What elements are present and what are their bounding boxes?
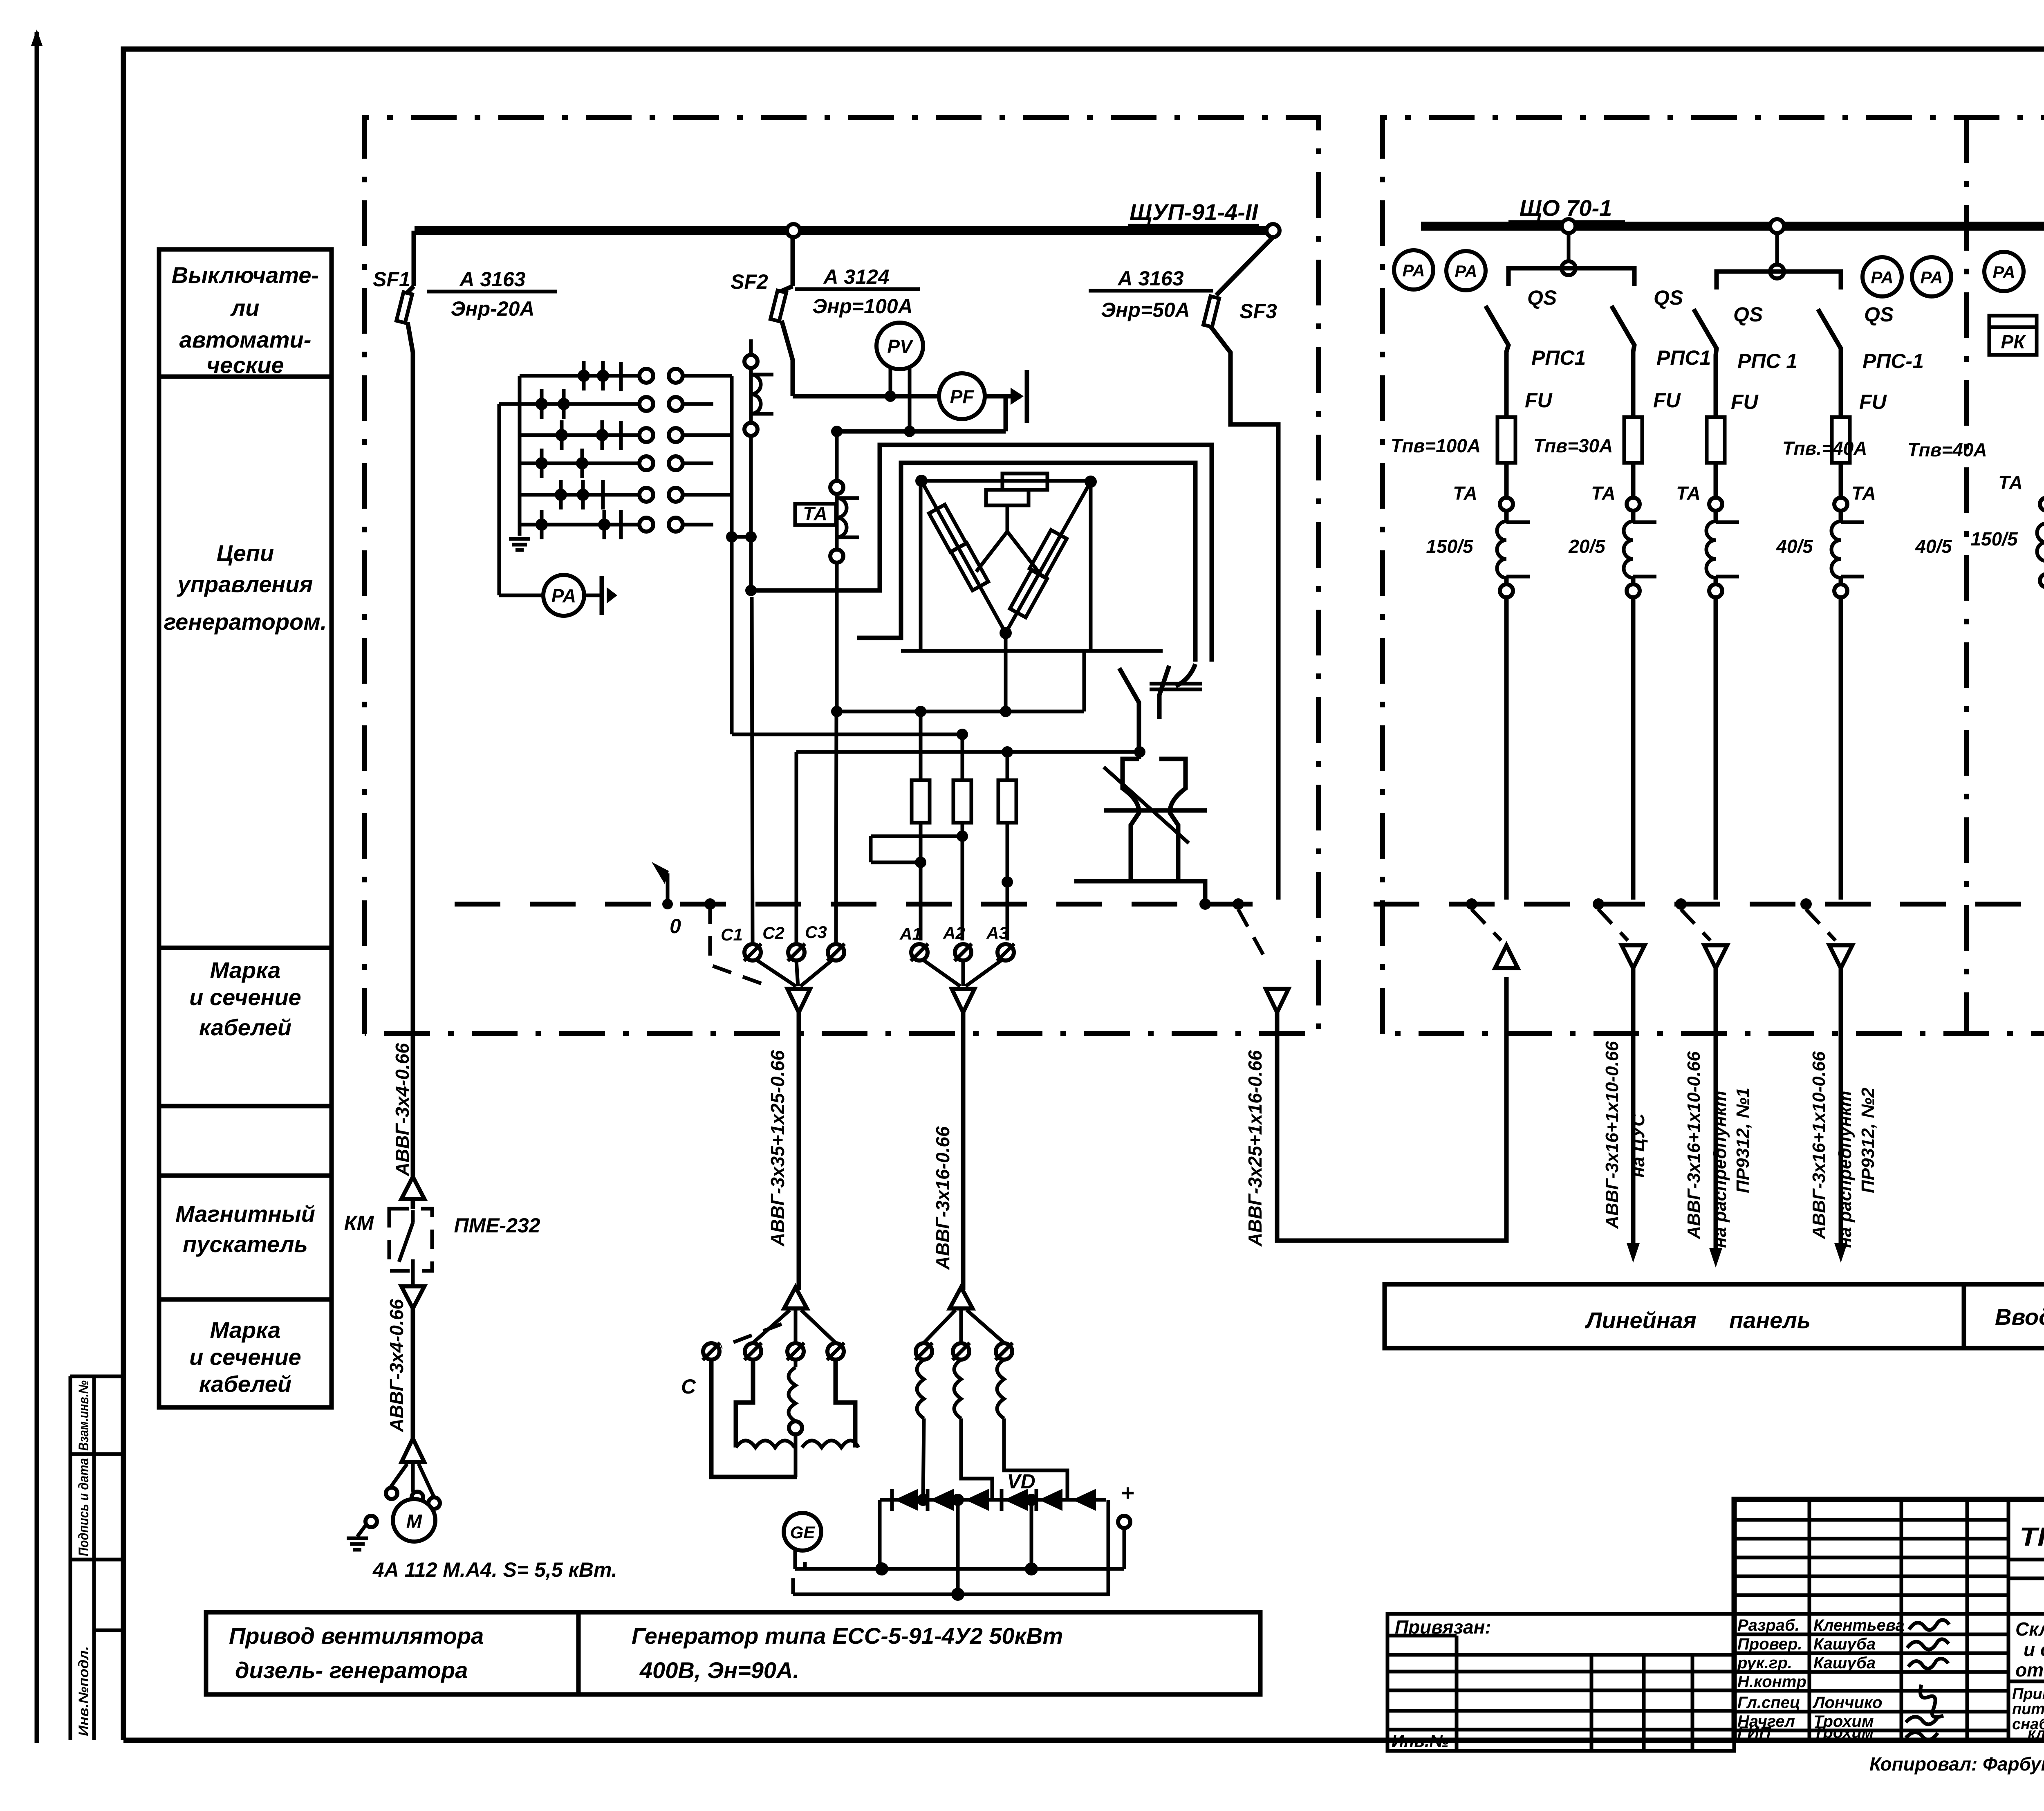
svg-text:PA: PA <box>1402 261 1425 280</box>
svg-text:АВВГ-3х4-0.66: АВВГ-3х4-0.66 <box>392 1043 413 1176</box>
svg-text:Клентьева: Клентьева <box>1813 1616 1905 1634</box>
svg-text:QS: QS <box>1654 286 1683 309</box>
svg-text:FU: FU <box>1653 389 1681 412</box>
svg-text:Подпись и дата: Подпись и дата <box>76 1458 92 1556</box>
svg-text:ТА: ТА <box>1676 482 1701 504</box>
svg-text:Гл.спец: Гл.спец <box>1737 1694 1800 1712</box>
svg-text:на распредпункт: на распредпункт <box>1835 1091 1855 1248</box>
svg-text:Тпв=100А: Тпв=100А <box>1391 435 1481 456</box>
svg-text:QS: QS <box>1864 303 1894 326</box>
svg-text:АВВГ-3х4-0.66: АВВГ-3х4-0.66 <box>386 1299 407 1432</box>
svg-text:генератором.: генератором. <box>164 609 327 635</box>
svg-text:Н.контр: Н.контр <box>1737 1673 1806 1691</box>
svg-text:Кашуба: Кашуба <box>1813 1635 1876 1653</box>
svg-text:SF2: SF2 <box>731 270 768 293</box>
svg-text:ческие: ческие <box>206 352 284 378</box>
svg-text:АВВГ-3х16-0.66: АВВГ-3х16-0.66 <box>932 1126 953 1270</box>
svg-text:ПР9312, №1: ПР9312, №1 <box>1733 1088 1753 1193</box>
svg-text:Взам.инв.№: Взам.инв.№ <box>76 1380 92 1451</box>
svg-text:Разраб.: Разраб. <box>1737 1616 1800 1634</box>
svg-text:PA: PA <box>1920 268 1943 287</box>
svg-text:PA: PA <box>551 585 576 606</box>
svg-text:С2: С2 <box>762 923 784 943</box>
svg-text:А 3124: А 3124 <box>823 265 889 288</box>
svg-text:и оборудования: и оборудования <box>2024 1639 2044 1660</box>
svg-text:Магнитный: Магнитный <box>175 1201 315 1227</box>
svg-text:АВВГ-3х25+1х16-0.66: АВВГ-3х25+1х16-0.66 <box>1244 1050 1266 1247</box>
svg-text:Копировал: Фарбун: Копировал: Фарбун <box>1869 1753 2044 1775</box>
svg-text:Вводная: Вводная <box>1995 1304 2044 1330</box>
svg-text:АВВГ-3х16+1х10-0.66: АВВГ-3х16+1х10-0.66 <box>1809 1051 1829 1239</box>
svg-text:А 3163: А 3163 <box>1117 267 1183 290</box>
svg-text:панель: панель <box>1729 1307 1811 1333</box>
svg-text:АВВГ-3х16+1х10-0.66: АВВГ-3х16+1х10-0.66 <box>1602 1041 1622 1229</box>
svg-text:Энр=100А: Энр=100А <box>812 295 912 318</box>
svg-text:АВВГ-3х35+1х25-0.66: АВВГ-3х35+1х25-0.66 <box>767 1050 788 1247</box>
svg-text:управления: управления <box>177 571 313 597</box>
svg-text:РПС-1: РПС-1 <box>1862 350 1924 373</box>
svg-text:А2: А2 <box>943 923 965 943</box>
svg-text:Тпв=30А: Тпв=30А <box>1533 435 1613 456</box>
svg-text:Энр=50А: Энр=50А <box>1101 298 1190 321</box>
svg-text:Тпв.=40А: Тпв.=40А <box>1782 438 1867 459</box>
svg-text:на распредпункт: на распредпункт <box>1710 1091 1730 1248</box>
svg-text:отдельно стоящий: отдельно стоящий <box>2015 1659 2044 1681</box>
svg-text:питательной сети электро: питательной сети электро <box>2012 1701 2044 1718</box>
svg-text:Линейная: Линейная <box>1585 1307 1697 1333</box>
svg-text:АВВГ-3х16+1х10-0.66: АВВГ-3х16+1х10-0.66 <box>1684 1051 1704 1239</box>
svg-text:Трохим: Трохим <box>1813 1723 1874 1741</box>
svg-text:А1: А1 <box>899 924 922 943</box>
svg-text:ТПА-II-600-338.86: ТПА-II-600-338.86 <box>2019 1522 2044 1551</box>
svg-text:Инв.№подл.: Инв.№подл. <box>76 1646 92 1736</box>
svg-text:и сечение: и сечение <box>189 984 301 1010</box>
svg-text:QS: QS <box>1527 286 1557 309</box>
svg-text:20/5: 20/5 <box>1568 536 1606 557</box>
svg-text:ТА: ТА <box>1998 472 2023 493</box>
svg-text:рук.гр.: рук.гр. <box>1737 1654 1792 1672</box>
svg-text:ли: ли <box>230 295 259 321</box>
svg-text:FU: FU <box>1731 390 1759 413</box>
svg-text:С: С <box>681 1375 696 1398</box>
svg-text:400В, Эн=90А.: 400В, Эн=90А. <box>639 1657 799 1683</box>
svg-text:Провер.: Провер. <box>1737 1635 1802 1653</box>
svg-text:Марка: Марка <box>210 1317 281 1343</box>
svg-text:FU: FU <box>1525 389 1553 412</box>
svg-text:ЩУП-91-4-II: ЩУП-91-4-II <box>1130 199 1259 225</box>
svg-text:150/5: 150/5 <box>1970 528 2018 550</box>
svg-text:150/5: 150/5 <box>1426 536 1474 557</box>
svg-text:PV: PV <box>887 336 914 357</box>
svg-text:VD: VD <box>1007 1470 1035 1493</box>
svg-text:КМ: КМ <box>344 1212 374 1234</box>
svg-text:С3: С3 <box>805 922 827 942</box>
svg-text:кабелей: кабелей <box>199 1014 291 1040</box>
svg-text:Генератор типа ЕСС-5-91-4У2: Генератор типа ЕСС-5-91-4У2 50кВт <box>632 1623 1063 1649</box>
svg-text:Выключате-: Выключате- <box>172 262 319 288</box>
svg-text:пускатель: пускатель <box>183 1231 308 1257</box>
svg-text:40/5: 40/5 <box>1776 536 1813 557</box>
svg-text:4А 112 М.А4. S= 5,5 кВт.: 4А 112 М.А4. S= 5,5 кВт. <box>372 1558 617 1581</box>
svg-text:GE: GE <box>790 1523 816 1542</box>
svg-text:Марка: Марка <box>210 957 281 983</box>
svg-text:климатических зон.: климатических зон. <box>2028 1725 2044 1742</box>
svg-text:ТА: ТА <box>803 503 827 524</box>
svg-text:+: + <box>1121 1480 1134 1506</box>
svg-text:кабелей: кабелей <box>199 1371 291 1397</box>
svg-text:ПМЕ-232: ПМЕ-232 <box>454 1214 540 1237</box>
svg-text:PA: PA <box>1871 268 1893 287</box>
svg-text:PA: PA <box>1992 263 2015 282</box>
svg-text:Склад материалов: Склад материалов <box>2015 1618 2044 1640</box>
svg-text:Тпв=40А: Тпв=40А <box>1907 439 1987 460</box>
svg-text:PA: PA <box>1455 262 1477 281</box>
svg-text:PF: PF <box>950 386 975 407</box>
svg-text:ЩО 70-1: ЩО 70-1 <box>1520 195 1612 221</box>
svg-text:Инв.№: Инв.№ <box>1392 1731 1449 1750</box>
svg-text:и сечение: и сечение <box>189 1344 301 1370</box>
svg-text:ТА: ТА <box>1591 482 1616 504</box>
svg-text:дизель- генератора: дизель- генератора <box>235 1657 468 1683</box>
svg-text:Привод вентилятора: Привод вентилятора <box>229 1623 484 1649</box>
svg-text:С1: С1 <box>721 925 743 944</box>
svg-text:РПС1: РПС1 <box>1656 346 1711 369</box>
svg-text:Энр-20А: Энр-20А <box>450 297 534 320</box>
svg-text:SF3: SF3 <box>1239 300 1277 323</box>
svg-text:Привязан:: Привязан: <box>1395 1616 1491 1638</box>
svg-text:ГИП: ГИП <box>1737 1723 1771 1741</box>
svg-text:А3: А3 <box>986 923 1009 943</box>
svg-text:0: 0 <box>670 915 681 938</box>
svg-text:Лончико: Лончико <box>1812 1694 1883 1712</box>
svg-text:Кашуба: Кашуба <box>1813 1654 1876 1672</box>
svg-text:Принципиальная схема: Принципиальная схема <box>2012 1685 2044 1703</box>
svg-text:Цепи: Цепи <box>217 540 274 566</box>
svg-text:FU: FU <box>1859 390 1887 413</box>
svg-text:40/5: 40/5 <box>1915 536 1952 557</box>
svg-text:РК: РК <box>2001 331 2026 352</box>
svg-text:автомати-: автомати- <box>179 327 312 352</box>
svg-text:ТА: ТА <box>1851 482 1876 504</box>
svg-text:А 3163: А 3163 <box>459 268 525 291</box>
svg-text:М: М <box>406 1510 423 1532</box>
svg-text:РПС1: РПС1 <box>1531 346 1586 369</box>
svg-text:РПС 1: РПС 1 <box>1737 350 1797 373</box>
svg-text:на ЦУС: на ЦУС <box>1628 1113 1648 1178</box>
svg-text:ТА: ТА <box>1453 482 1477 504</box>
svg-text:ПР9312, №2: ПР9312, №2 <box>1858 1087 1878 1193</box>
svg-text:QS: QS <box>1733 303 1763 326</box>
svg-text:SF1: SF1 <box>373 268 410 291</box>
